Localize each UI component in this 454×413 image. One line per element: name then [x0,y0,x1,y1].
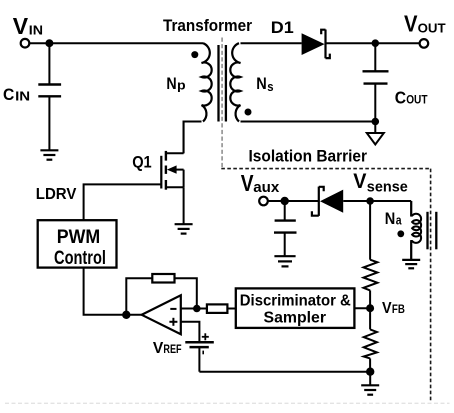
svg-text:sense: sense [367,179,408,195]
svg-text:s: s [267,80,273,94]
wire COUT top [374,43,376,71]
ground output (open triangle) [367,133,384,145]
capacitor Vaux [274,221,297,233]
svg-text:C: C [395,87,407,107]
wire divider bottom [369,358,371,371]
svg-text:N: N [166,75,176,93]
transformer T1 primary winding Np [202,43,212,121]
COUT label [395,87,428,107]
svg-text:N: N [256,75,267,93]
svg-text:C: C [3,85,14,104]
Np label [166,75,186,93]
svg-text:OUT: OUT [418,21,446,36]
isolation barrier dashed line (right vertical) [430,169,432,402]
svg-text:V: V [404,10,418,36]
wire PWM out to opamp [84,268,142,315]
terminal VOUT [420,39,429,48]
svg-text:Q1: Q1 [132,154,152,172]
wire divider mid [369,290,371,308]
node bottom rail junction [366,368,374,376]
diode D1 [302,30,330,59]
svg-text:REF: REF [163,344,181,356]
ground aux winding [402,260,420,268]
node Vsense junction [366,197,374,205]
wire to output ground [374,122,376,134]
node secondary return junction [372,118,380,126]
Discriminator and Sampler block [236,288,355,328]
wire Q1 source to ground [183,187,185,224]
wire CIN top [48,43,50,83]
wire secondary top [241,42,302,44]
capacitor CIN [38,85,61,97]
wire discriminator to VFB [354,307,370,309]
node inverting input junction [193,305,201,313]
ground Q1 [175,224,193,233]
node VOUT junction [372,39,380,47]
Np phase dot [191,51,198,58]
isolation barrier dashed line (horizontal) [221,168,430,170]
VREF label [153,340,182,357]
node Vaux junction [281,197,289,205]
op-amp U1 error amplifier [142,295,181,334]
svg-text:V: V [382,300,392,317]
Ns label [256,75,273,94]
wire COUT bottom [374,84,376,122]
svg-text:FB: FB [392,304,405,316]
isolation barrier dashed line (transformer, gray) [221,38,223,169]
svg-text:V: V [153,340,164,357]
svg-text:p: p [177,79,186,93]
PWM Control text [54,226,106,269]
node VIN label [13,13,43,39]
PWM Control block [38,220,117,267]
node Vsense label [353,170,408,195]
svg-text:Sampler: Sampler [264,310,327,327]
resistor upper divider (zigzag) [364,260,378,291]
node opamp output junction [122,311,130,319]
node VFB junction [366,304,374,312]
ground Vaux cap [274,256,295,266]
wire Vsense down to divider [369,201,371,260]
svg-text:V: V [353,170,366,193]
svg-text:D1: D1 [271,18,294,37]
figure bottom dashed border [5,402,450,404]
VFB label [382,300,405,317]
wire opamp inverting input [181,308,207,310]
inductor Na aux winding [411,201,421,260]
resistor lower divider (zigzag) [364,329,377,358]
terminal Vaux [259,197,268,206]
wire opamp noninverting input [181,322,200,342]
svg-text:OUT: OUT [406,92,428,106]
svg-text:IN: IN [29,23,43,38]
node Vaux label [241,170,280,196]
node VOUT label [404,10,446,36]
wire Vaux rail [268,200,319,202]
resistor input (box) [207,304,228,313]
svg-text:LDRV: LDRV [36,186,77,203]
wire aux winding top [410,201,412,216]
ground CIN [40,150,58,159]
wire Vaux cap bottom [284,233,286,257]
ground bottom [361,385,379,394]
capacitor COUT [363,71,389,83]
resistor feedback (box) [152,274,174,283]
Discriminator text [240,292,351,326]
wire CIN bottom [48,96,50,150]
battery VREF [185,333,214,354]
CIN label [3,85,30,104]
node VIN junction [45,39,53,47]
wire feedback left vertical [126,278,152,315]
svg-text:Isolation Barrier: Isolation Barrier [249,147,368,165]
transformer core [219,45,226,122]
svg-text:Control: Control [54,248,106,269]
wire resistor to discriminator [227,308,235,310]
wire battery to bottom rail [198,347,200,372]
aux core bars [428,212,437,250]
wire to bottom ground [369,372,371,386]
wire VIN rail [30,42,203,44]
svg-text:V: V [241,170,254,196]
svg-text:aux: aux [253,180,279,196]
op-amp plus sign [169,318,177,326]
svg-text:Discriminator &: Discriminator & [240,292,351,309]
svg-text:N: N [385,210,396,228]
wire primary bottom [184,122,202,154]
wire feedback right [175,278,197,308]
wire secondary bottom [241,121,376,123]
wire LDRV gate [84,184,162,220]
svg-text:IN: IN [15,90,30,104]
Na phase dot [397,230,404,237]
wire bottom rail [199,371,370,373]
terminal VIN [21,39,30,48]
diode D2 aux (points left) [312,187,343,216]
wire VFB down [369,308,371,329]
Na label [385,210,403,228]
svg-text:a: a [396,214,403,228]
wire Vaux cap top [284,201,286,221]
transformer T1 secondary winding Ns [230,43,240,121]
wire aux diode to winding [343,200,411,202]
transistor Q1 (NMOS) [161,121,183,190]
svg-text:V: V [13,13,29,39]
svg-text:Transformer: Transformer [163,16,252,35]
wire aux winding bottom [410,241,412,260]
op-amp minus sign [170,308,176,310]
svg-text:PWM: PWM [57,226,100,248]
Ns phase dot [245,109,252,116]
wire D1 to VOUT [327,42,420,44]
